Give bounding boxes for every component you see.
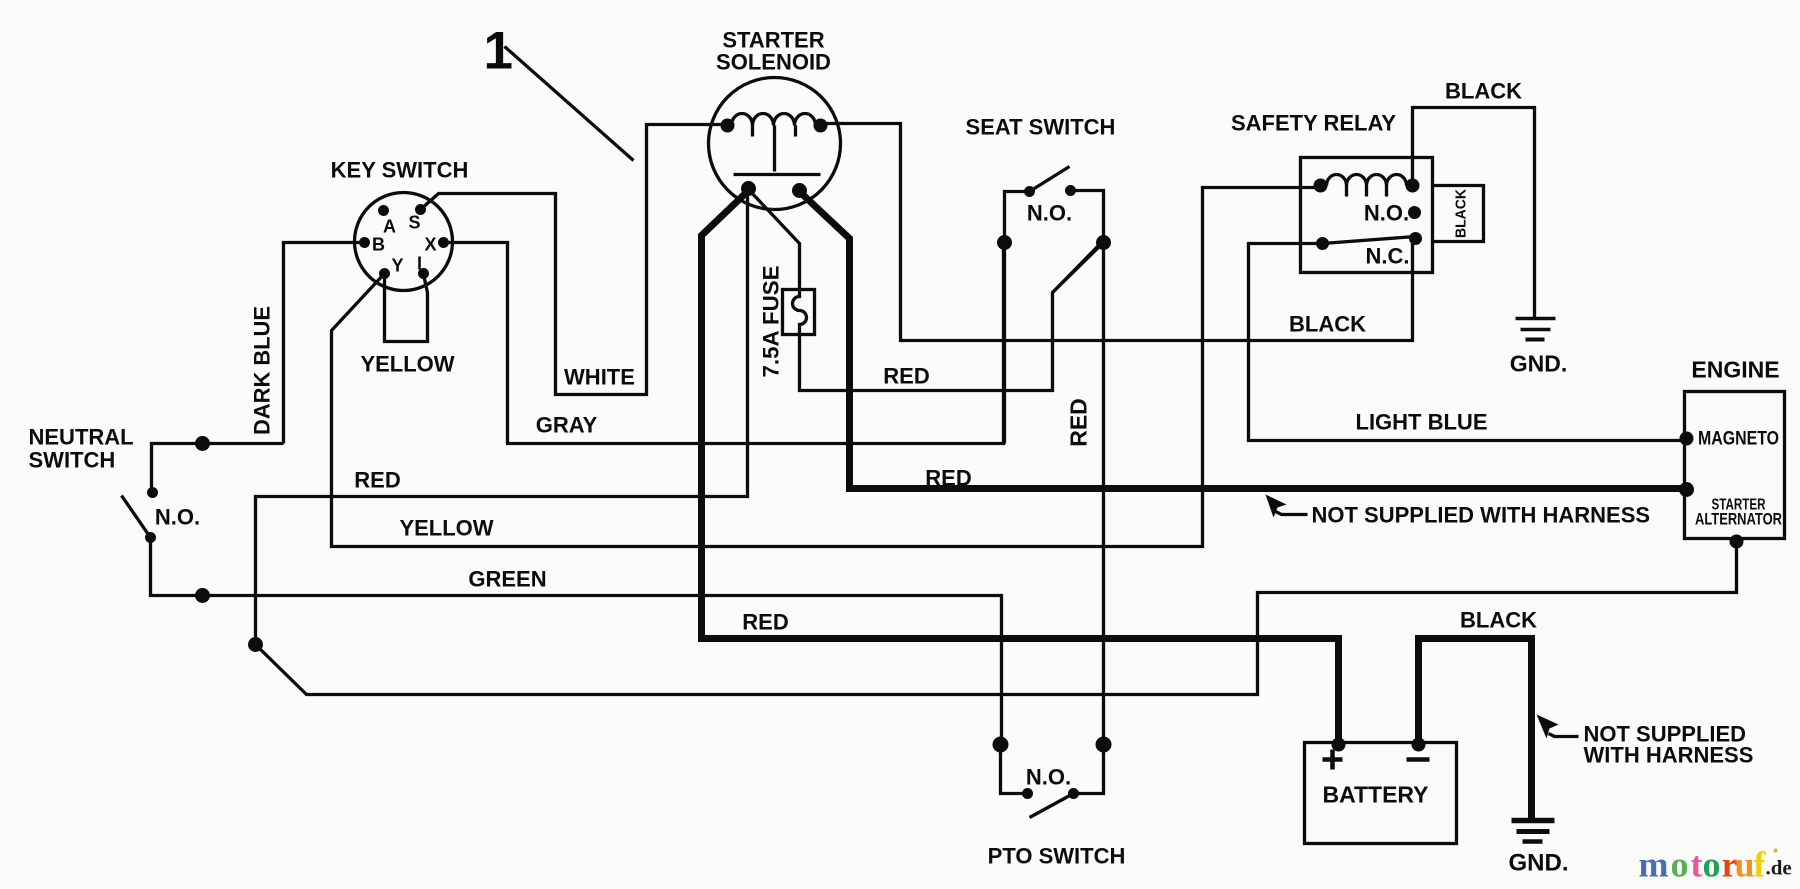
solenoid coil winding	[732, 114, 816, 126]
svg-text:GRAY: GRAY	[536, 413, 598, 438]
svg-text:GND.: GND.	[1509, 850, 1569, 877]
black ground cable: battery - to ground	[1419, 639, 1532, 819]
seat switch right terminal	[1096, 235, 1111, 250]
svg-text:NEUTRAL: NEUTRAL	[29, 425, 134, 450]
engine starter terminal (red cable)	[1679, 482, 1694, 497]
neutral switch blade	[122, 496, 151, 538]
fuse feed wire from solenoid left contact	[750, 191, 800, 292]
arrow: not supplied with harness (bottom)	[1537, 715, 1579, 739]
fuse element squiggle	[793, 292, 807, 332]
key switch pin I	[418, 268, 429, 279]
PTO switch left terminal	[993, 737, 1009, 753]
yellow jumper loop between pins Y and I	[385, 274, 428, 342]
seat switch lower blade to fuse red wire	[1053, 243, 1104, 293]
solenoid coil right terminal	[814, 119, 828, 133]
engine box	[1685, 392, 1785, 539]
relay N.C. left contact	[1316, 237, 1329, 250]
key switch body	[355, 193, 453, 291]
thick red battery cable: solenoid left contact to battery +	[702, 191, 1339, 745]
junction dot on neutral wire	[195, 436, 210, 451]
seat switch left leg	[1005, 192, 1030, 444]
starter solenoid body	[709, 78, 841, 210]
PTO switch right contact	[1068, 788, 1079, 799]
svg-text:BLACK: BLACK	[1289, 312, 1366, 337]
neutral switch lower contact	[145, 532, 156, 543]
svg-text:SAFETY RELAY: SAFETY RELAY	[1231, 111, 1396, 136]
junction dot on green wire	[195, 588, 210, 603]
relay coil stubs	[1345, 186, 1348, 197]
light blue wire: relay N.C. left to engine magneto	[1249, 244, 1684, 441]
seat switch upper left contact	[1024, 186, 1035, 197]
engine bottom terminal	[1730, 535, 1744, 549]
svg-text:MAGNETO: MAGNETO	[1698, 429, 1779, 450]
svg-text:BLACK: BLACK	[1445, 79, 1522, 104]
gray wire: key switch X to seat switch left leg	[444, 243, 1004, 444]
seat switch upper right contact	[1065, 185, 1076, 196]
svg-text:RED: RED	[883, 364, 929, 389]
svg-text:N.O.: N.O.	[1026, 765, 1071, 790]
svg-text:N.O.: N.O.	[1027, 201, 1072, 226]
neutral switch upper contact	[147, 487, 158, 498]
key switch pin A	[378, 205, 389, 216]
PTO switch left leg	[1001, 745, 1028, 794]
battery box	[1305, 743, 1457, 844]
ground symbol (relay)	[1516, 319, 1556, 340]
solenoid right contact	[792, 183, 807, 198]
solenoid coil left terminal	[721, 119, 735, 133]
svg-text:YELLOW: YELLOW	[360, 352, 454, 377]
engine magneto terminal	[1680, 432, 1694, 446]
svg-text:YELLOW: YELLOW	[399, 516, 493, 541]
key switch pin X	[438, 237, 449, 248]
svg-text:SWITCH: SWITCH	[29, 448, 116, 473]
relay coil winding	[1327, 175, 1407, 186]
green wire: neutral switch to PTO switch left	[151, 538, 1002, 745]
svg-text:LIGHT BLUE: LIGHT BLUE	[1356, 410, 1488, 435]
svg-text:B: B	[372, 235, 385, 255]
svg-text:N.C.: N.C.	[1366, 244, 1410, 269]
white wire: key switch S to solenoid coil left	[421, 125, 728, 395]
svg-text:A: A	[383, 217, 396, 237]
svg-text:BLACK: BLACK	[1460, 608, 1537, 633]
relay black jumper bracket	[1433, 186, 1484, 242]
battery + terminal	[1332, 738, 1346, 752]
dark blue wire: key switch B to neutral switch row	[284, 243, 365, 444]
svg-text:RED: RED	[354, 468, 400, 493]
ground symbol (battery)	[1512, 821, 1555, 842]
svg-text:KEY SWITCH: KEY SWITCH	[331, 158, 469, 183]
PTO switch right terminal	[1096, 737, 1112, 753]
safety relay body	[1301, 158, 1433, 273]
svg-text:BLACK: BLACK	[1453, 189, 1470, 238]
arrow: not supplied with harness (middle)	[1266, 495, 1308, 518]
svg-text:t: t	[1691, 845, 1703, 885]
svg-text:u: u	[1735, 845, 1755, 885]
neutral switch top wire	[152, 444, 284, 493]
svg-text:WHITE: WHITE	[564, 365, 635, 390]
motoruf.de watermark	[1639, 845, 1792, 885]
battery - terminal	[1412, 738, 1426, 752]
svg-text:S: S	[408, 213, 420, 233]
svg-text:ENGINE: ENGINE	[1691, 357, 1779, 383]
svg-text:Y: Y	[391, 256, 403, 276]
PTO switch left contact	[1022, 788, 1033, 799]
PTO switch right leg	[1074, 745, 1104, 794]
seat switch left terminal	[997, 235, 1012, 250]
solenoid left contact	[741, 181, 756, 196]
solenoid coil stubs	[751, 126, 754, 137]
svg-text:RED: RED	[925, 466, 971, 491]
key switch pin Y	[379, 268, 390, 279]
seat switch blade	[1030, 167, 1070, 192]
svg-text:GND.: GND.	[1510, 351, 1568, 377]
relay armature blade	[1323, 237, 1416, 244]
svg-text:.de: .de	[1766, 856, 1792, 880]
svg-text:SOLENOID: SOLENOID	[716, 50, 831, 75]
fuse F1 7.5A body	[783, 290, 815, 335]
key switch pin B	[359, 237, 370, 248]
relay N.C. right contact	[1409, 232, 1422, 245]
svg-text:7.5A FUSE: 7.5A FUSE	[759, 266, 784, 378]
yellow wire: key switch Y to safety relay coil left	[332, 188, 1321, 547]
callout leader line to starter solenoid	[505, 47, 634, 161]
relay N.O. contact	[1408, 206, 1421, 219]
svg-text:DARK BLUE: DARK BLUE	[250, 306, 275, 435]
junction dot at red wire bend	[248, 637, 263, 652]
svg-text:o: o	[1703, 845, 1721, 885]
relay coil right terminal	[1406, 179, 1420, 193]
svg-text:SEAT SWITCH: SEAT SWITCH	[966, 115, 1116, 140]
svg-text:m: m	[1639, 845, 1669, 885]
thick red cable: solenoid right contact to engine starter	[801, 193, 1684, 489]
svg-text:o: o	[1671, 845, 1689, 885]
svg-text:BATTERY: BATTERY	[1322, 782, 1428, 808]
red wire: solenoid left contact to engine starter (long run)	[256, 188, 1737, 695]
svg-text:I: I	[417, 254, 422, 274]
PTO switch blade	[1030, 794, 1074, 818]
black wire: relay coil right to ground	[1413, 108, 1535, 318]
red wire: fuse bottom to seat switch right leg	[800, 244, 1101, 391]
svg-text:ALTERNATOR: ALTERNATOR	[1695, 510, 1782, 529]
svg-text:RED: RED	[742, 610, 788, 635]
svg-text:GREEN: GREEN	[468, 567, 546, 592]
svg-text:NOT SUPPLIED WITH HARNESS: NOT SUPPLIED WITH HARNESS	[1312, 503, 1651, 528]
svg-text:N.O.: N.O.	[155, 505, 200, 530]
key switch pin S	[415, 204, 426, 215]
svg-text:RED: RED	[1066, 398, 1092, 447]
black wire: solenoid coil right to safety relay N.C.	[821, 124, 1413, 341]
svg-text:WITH HARNESS: WITH HARNESS	[1584, 743, 1754, 768]
solenoid contact bar	[734, 173, 821, 176]
svg-text:X: X	[424, 235, 436, 255]
relay coil left terminal	[1314, 179, 1328, 193]
seat switch right leg	[1071, 191, 1104, 745]
solenoid plunger line	[773, 126, 776, 172]
svg-text:PTO SWITCH: PTO SWITCH	[988, 844, 1126, 869]
svg-text:N.O.: N.O.	[1364, 201, 1409, 226]
